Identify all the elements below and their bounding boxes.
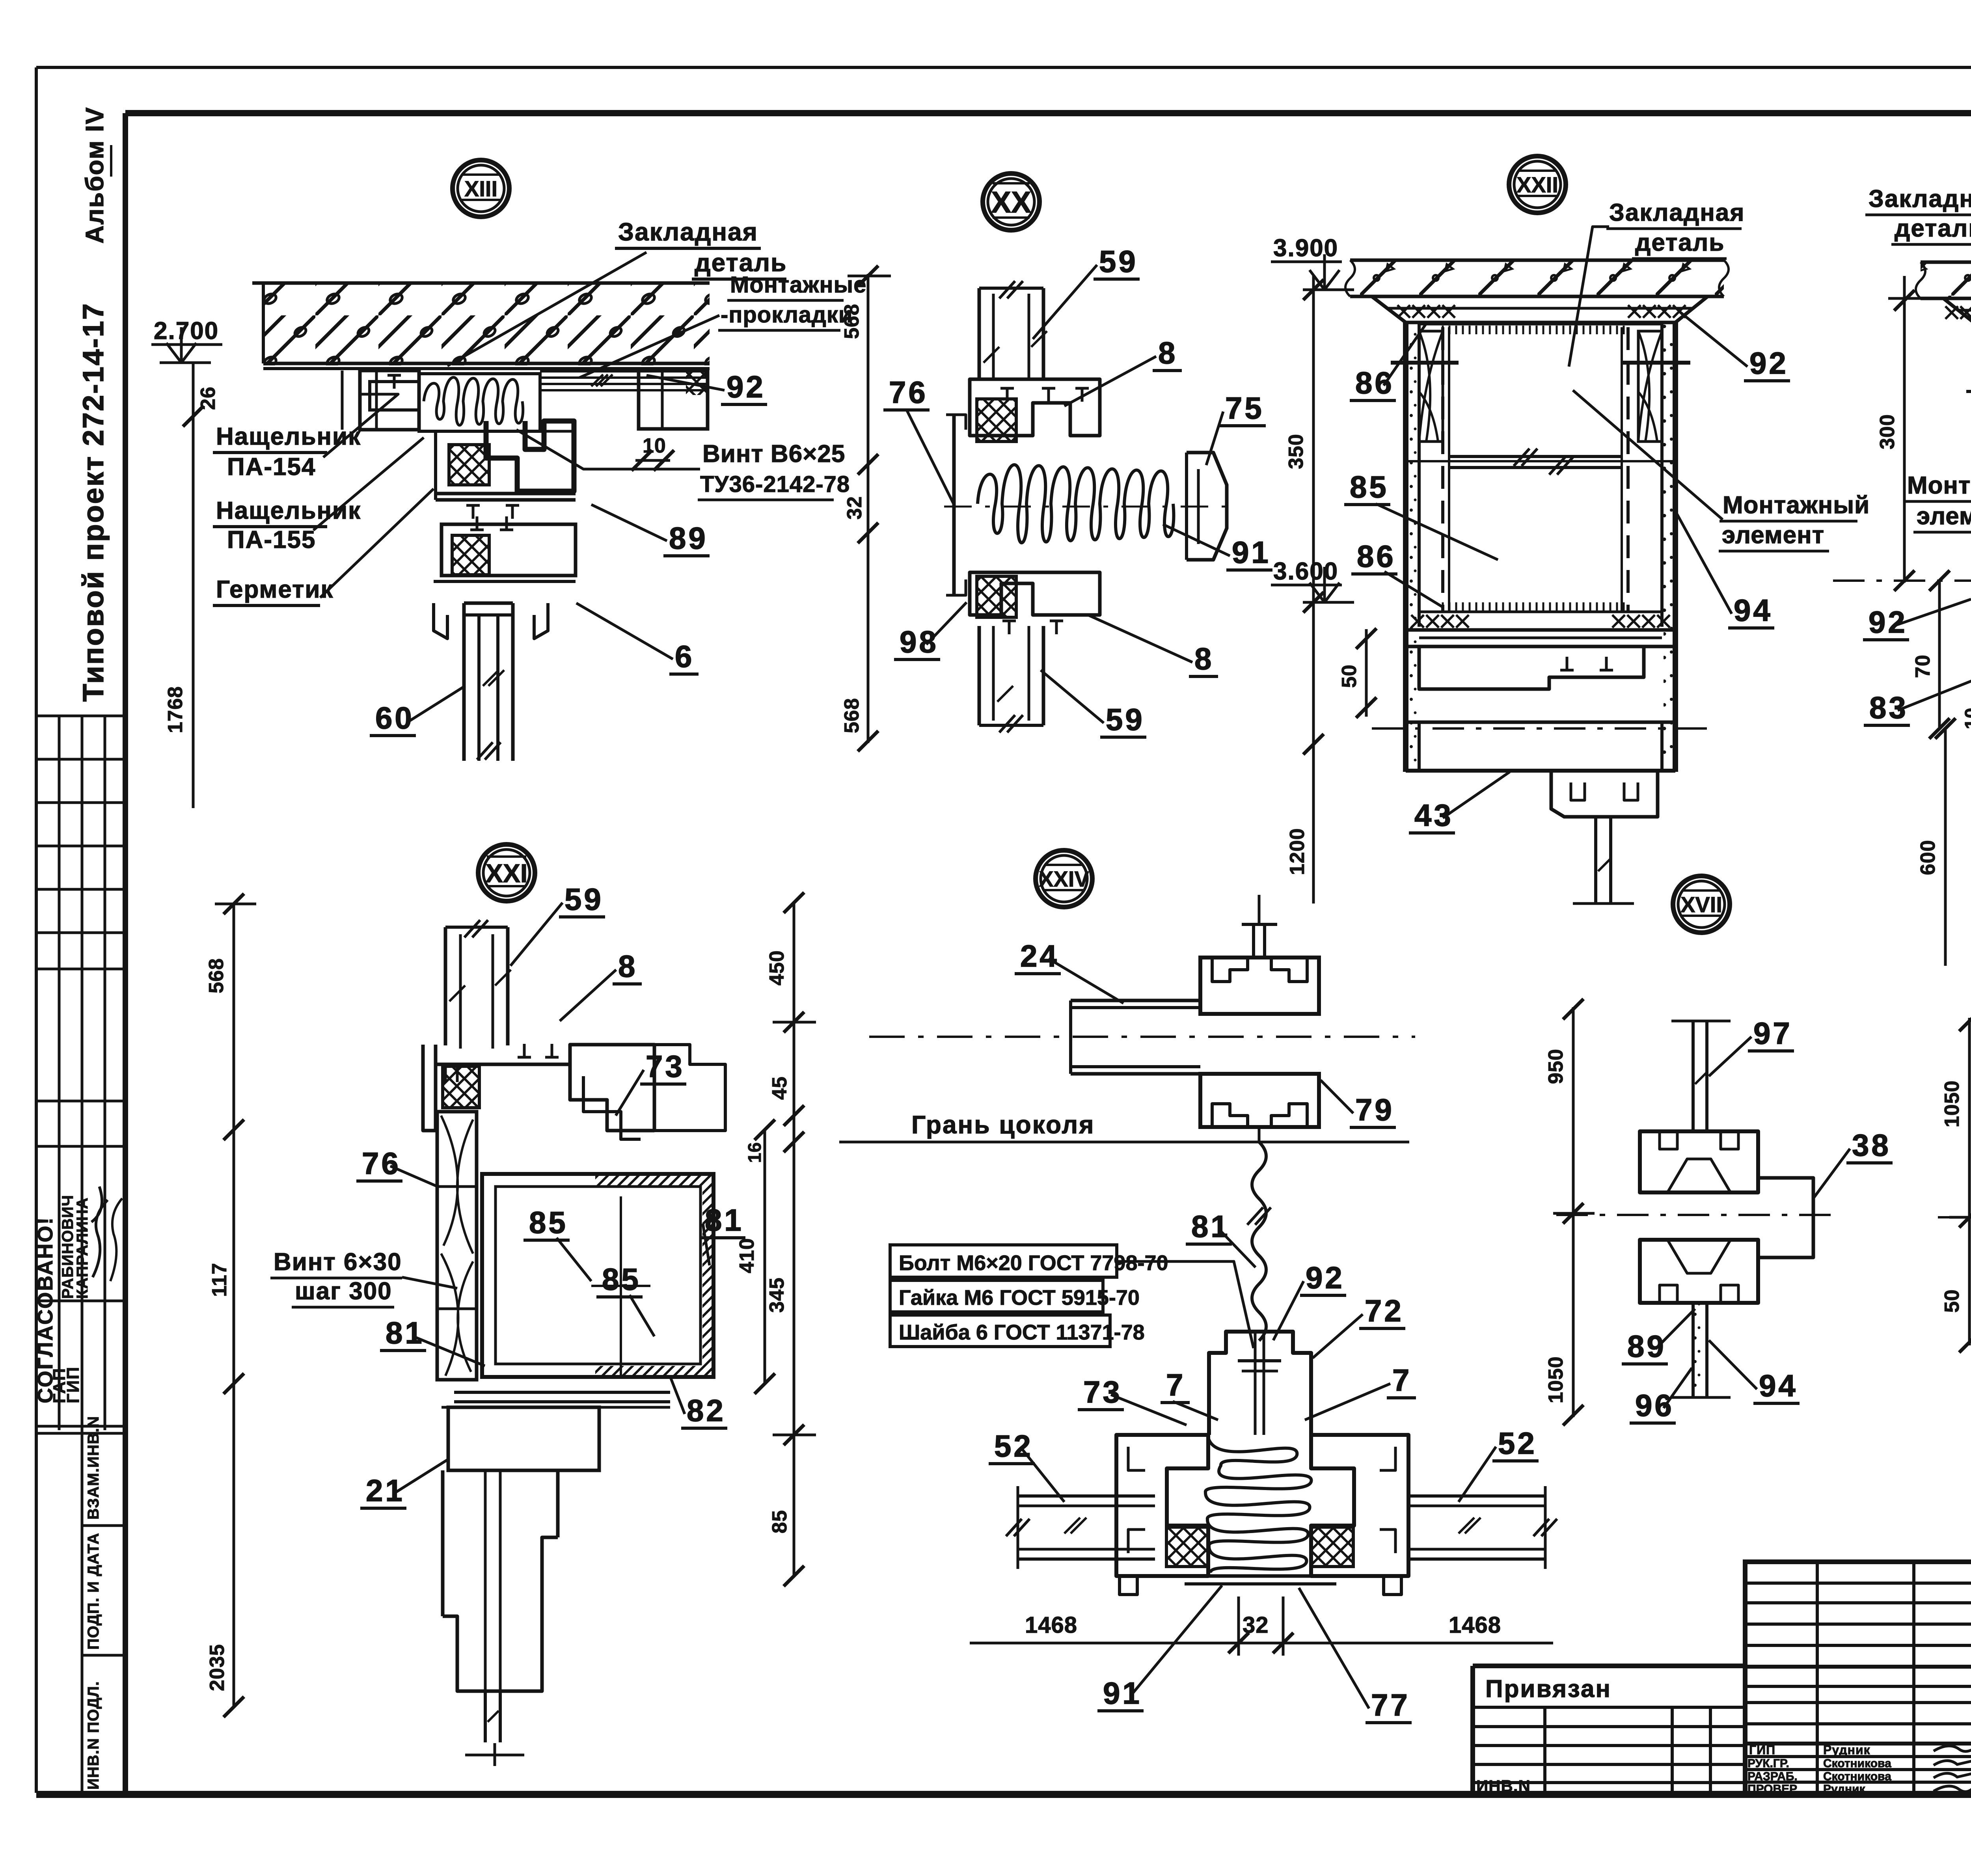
detail XXIV spring stack [1205, 1439, 1312, 1573]
svg-text:ГИП: ГИП [63, 1366, 83, 1403]
svg-text:Нащельник: Нащельник [216, 423, 361, 450]
detail XXIV spec box gayka [890, 1280, 1103, 1312]
svg-text:-прокладки: -прокладки [721, 302, 853, 328]
svg-text:Закладная: Закладная [1609, 199, 1745, 226]
detail XXII wood blocking right [1638, 331, 1662, 442]
svg-text:Альбом IV: Альбом IV [80, 106, 109, 244]
svg-text:92: 92 [1306, 1260, 1345, 1295]
detail XXIV spec box bolt [890, 1245, 1117, 1277]
svg-text:XIII: XIII [464, 176, 497, 201]
side stamp table horizontals [36, 715, 125, 717]
detail XXII slab with hatch [1350, 260, 1724, 296]
svg-text:Типовой проект 272-14-17: Типовой проект 272-14-17 [77, 302, 110, 702]
svg-text:ТУ36-2142-78: ТУ36-2142-78 [700, 471, 850, 497]
svg-text:шаг 300: шаг 300 [295, 1278, 392, 1305]
dim chain 50 [1365, 629, 1368, 717]
svg-text:8: 8 [618, 949, 637, 984]
detail XXIV bolt assembly box [1209, 1332, 1311, 1435]
svg-text:XVII: XVII [1680, 892, 1722, 917]
svg-text:77: 77 [1371, 1688, 1410, 1722]
svg-text:450: 450 [766, 950, 788, 986]
main frame bottom line [36, 1791, 1971, 1798]
svg-text:РАЗРАБ.: РАЗРАБ. [1747, 1770, 1798, 1783]
svg-text:1050: 1050 [1544, 1356, 1567, 1403]
detail XXI frame profiles [423, 1045, 436, 1131]
svg-text:568: 568 [205, 958, 228, 993]
svg-text:ПРОВЕР: ПРОВЕР [1747, 1783, 1797, 1796]
detail XXIV glass right [1408, 1494, 1545, 1498]
svg-text:60: 60 [375, 700, 414, 735]
svg-text:16: 16 [744, 1142, 765, 1163]
detail XVII centerline [1556, 1214, 1835, 1216]
svg-text:Рудник: Рудник [1823, 1743, 1870, 1757]
svg-text:45: 45 [768, 1076, 791, 1100]
detail XXI lower box [448, 1407, 599, 1470]
detail XXII box outer walls [1403, 322, 1408, 772]
side stamp signature squiggles [91, 1187, 108, 1277]
detail XXI sill plates [454, 1391, 670, 1394]
svg-text:345: 345 [766, 1277, 788, 1313]
svg-text:85: 85 [1350, 469, 1389, 504]
detail XVIII centerline [1938, 1216, 1971, 1218]
svg-text:950: 950 [1544, 1049, 1567, 1084]
svg-text:59: 59 [1099, 244, 1138, 279]
detail XXIV gasket x-hatch left [1166, 1527, 1208, 1567]
detail XVII top profile box [1640, 1131, 1758, 1192]
detail XXIII dim 600 [1944, 728, 1947, 966]
svg-text:XXI: XXI [486, 859, 527, 888]
detail XX centerline [944, 506, 1228, 508]
svg-text:70: 70 [1911, 654, 1934, 678]
detail XIII circle [453, 160, 509, 217]
svg-text:Винт 6×30: Винт 6×30 [274, 1248, 402, 1276]
detail XIII slab with hatch [263, 283, 710, 365]
detail XVII right extension [1758, 1178, 1813, 1257]
svg-text:98: 98 [900, 624, 939, 659]
detail XXIV right profile box [1311, 1435, 1408, 1576]
svg-text:38: 38 [1852, 1128, 1891, 1162]
detail XXIV spec leader [1117, 1261, 1254, 1348]
detail XX left skin line [952, 415, 956, 595]
svg-text:ПА-155: ПА-155 [227, 526, 316, 553]
detail XXII sill box [1419, 646, 1644, 689]
svg-text:300: 300 [1876, 414, 1899, 449]
svg-text:Рудник: Рудник [1823, 1783, 1866, 1796]
detail XXIV outer dim 410 [764, 1130, 766, 1384]
detail XXI tray box [482, 1174, 714, 1377]
detail XVII circle [1673, 876, 1730, 933]
detail XIII gasket x-hatch upper [449, 445, 489, 485]
detail XIII Z-profile channel [486, 421, 574, 491]
detail XXIV bottom plate [1190, 1574, 1330, 1578]
detail XXI top glass [444, 927, 447, 1045]
svg-text:350: 350 [1285, 434, 1308, 469]
privyazan table lines [1473, 1706, 1745, 1709]
svg-text:элемент: элемент [1722, 522, 1824, 549]
detail XXIV gasket x-hatch right [1312, 1527, 1353, 1567]
svg-text:8: 8 [1158, 335, 1177, 370]
svg-text:600: 600 [1917, 840, 1939, 875]
detail XXIII slab with hatch [1921, 262, 1971, 298]
detail XX bottom glass box [978, 626, 981, 725]
detail XXII top flange trapezoid [1372, 296, 1708, 322]
svg-text:91: 91 [1232, 535, 1271, 570]
svg-text:81: 81 [705, 1203, 744, 1237]
svg-text:117: 117 [208, 1263, 231, 1297]
svg-text:8: 8 [1194, 641, 1214, 676]
svg-text:деталь: деталь [1895, 215, 1971, 242]
svg-text:10: 10 [1962, 708, 1971, 729]
svg-text:Монтажный: Монтажный [1907, 472, 1971, 499]
svg-text:ГИП: ГИП [1749, 1743, 1775, 1757]
detail XXIII top flange [1943, 298, 1971, 324]
svg-text:Закладная: Закладная [618, 218, 758, 246]
svg-text:1768: 1768 [164, 686, 187, 733]
svg-text:ПОДП. И ДАТА: ПОДП. И ДАТА [85, 1533, 102, 1650]
detail XXIV top bolt [1252, 924, 1255, 958]
detail XVII top glass strip [1692, 1021, 1695, 1131]
detail XX insulation spring run [978, 465, 1174, 543]
detail XX lower profile cluster [970, 572, 1100, 615]
privyazan table border [1473, 1664, 1745, 1668]
svg-text:3.900: 3.900 [1273, 235, 1338, 262]
svg-text:Привязан: Привязан [1485, 1675, 1611, 1703]
detail XIII mullion side clips [434, 603, 447, 639]
svg-text:52: 52 [994, 1429, 1033, 1463]
detail XXIV gran tsokolya line [839, 1141, 1409, 1144]
detail XXII wood blocking left [1419, 331, 1443, 442]
svg-text:81: 81 [1191, 1209, 1230, 1244]
title block outer border [1745, 1562, 1971, 1794]
title block left column verticals [1816, 1562, 1819, 1794]
svg-text:96: 96 [1635, 1388, 1674, 1423]
detail XXII centerline [1372, 727, 1709, 730]
svg-text:79: 79 [1355, 1092, 1394, 1127]
svg-text:7: 7 [1392, 1363, 1412, 1397]
svg-text:1468: 1468 [1449, 1612, 1501, 1638]
detail XXII tie bolts [1391, 361, 1459, 365]
svg-text:2035: 2035 [206, 1644, 229, 1691]
svg-text:73: 73 [1083, 1375, 1122, 1409]
svg-text:Монтажные: Монтажные [730, 272, 866, 298]
svg-text:Монтажный: Монтажный [1723, 492, 1870, 519]
svg-text:52: 52 [1498, 1426, 1537, 1461]
svg-text:XX: XX [991, 186, 1031, 219]
svg-text:76: 76 [889, 375, 928, 410]
detail XXIII centerline left [1833, 579, 1971, 582]
detail XIII right bracket [639, 371, 708, 429]
svg-text:50: 50 [1338, 664, 1361, 688]
detail XVII mid band [1645, 1191, 1756, 1194]
svg-text:97: 97 [1753, 1016, 1792, 1051]
detail XIII mullion with glass [462, 603, 466, 761]
svg-text:1200: 1200 [1286, 828, 1309, 875]
svg-text:XXII: XXII [1516, 172, 1558, 197]
detail XX circle [983, 173, 1040, 230]
svg-text:86: 86 [1355, 365, 1394, 400]
svg-text:XXIV: XXIV [1039, 866, 1089, 891]
svg-text:элемент: элемент [1917, 503, 1971, 530]
svg-text:89: 89 [1627, 1329, 1666, 1364]
svg-text:72: 72 [1365, 1293, 1404, 1328]
detail XXIV top plates [1071, 999, 1200, 1002]
detail XXII flange gaskets x rows [1397, 305, 1410, 318]
detail XIII shim plates [540, 370, 708, 373]
sheet outer border top line [36, 66, 1971, 69]
detail XXIII dim 70 [1938, 581, 1941, 728]
svg-text:59: 59 [1106, 702, 1145, 737]
detail XVII left dim chain [1572, 1007, 1575, 1417]
title block signatures [1934, 1745, 1971, 1792]
detail XXIII left dim 300 [1903, 276, 1906, 583]
detail XXI insulation strip [437, 1112, 477, 1380]
svg-text:Нащельник: Нащельник [216, 497, 361, 524]
svg-text:ВЗАМ.ИНВ.N: ВЗАМ.ИНВ.N [85, 1416, 102, 1520]
detail XVII bottom profile box [1640, 1240, 1758, 1303]
svg-text:73: 73 [646, 1049, 685, 1084]
detail XXI lower mullion [441, 1470, 445, 1616]
detail XIII insulation springs [424, 377, 523, 425]
detail XXI gasket x-hatch [443, 1066, 479, 1108]
svg-text:РУК.ГР.: РУК.ГР. [1747, 1757, 1789, 1770]
main frame top line [125, 110, 1971, 116]
detail XXIV top member right block [1200, 958, 1319, 1014]
svg-text:75: 75 [1225, 391, 1264, 425]
svg-text:2.700: 2.700 [154, 317, 219, 345]
detail XXI circle [478, 844, 535, 901]
svg-text:85: 85 [768, 1510, 791, 1533]
detail XX top glass box [978, 288, 981, 379]
svg-text:26: 26 [197, 386, 220, 410]
detail XXIV bottom dim line [970, 1642, 1553, 1645]
svg-text:85: 85 [602, 1262, 641, 1297]
detail XX pointed cap [1187, 453, 1227, 560]
main frame left line [123, 113, 128, 1794]
svg-text:Шайба 6 ГОСТ 11371-78: Шайба 6 ГОСТ 11371-78 [899, 1321, 1145, 1344]
svg-text:3.600: 3.600 [1273, 558, 1338, 585]
detail XXIV bottom clips [1120, 1576, 1137, 1595]
svg-text:568: 568 [840, 304, 863, 339]
svg-text:81: 81 [386, 1315, 425, 1350]
svg-text:Болт М6×20 ГОСТ 7798-70: Болт М6×20 ГОСТ 7798-70 [899, 1251, 1168, 1275]
svg-text:92: 92 [727, 369, 766, 404]
svg-text:Герметик: Герметик [216, 576, 334, 603]
svg-text:Закладная: Закладная [1869, 185, 1971, 212]
sheet outer border left line [35, 67, 38, 1793]
svg-text:92: 92 [1749, 346, 1788, 380]
svg-text:Грань цоколя: Грань цоколя [911, 1110, 1095, 1139]
detail XXII mid rail [1449, 455, 1622, 458]
detail XVIII left dim chain [1968, 1018, 1971, 1345]
svg-text:24: 24 [1020, 939, 1059, 973]
detail XXIV spec box shayba [890, 1315, 1110, 1347]
detail XIII level mark 2.700 [160, 361, 211, 364]
detail XIII mid member [436, 492, 576, 496]
dim chain 3.600 level mark [1303, 601, 1354, 604]
svg-text:КАПРАЛИНА: КАПРАЛИНА [74, 1197, 91, 1299]
svg-text:1050: 1050 [1941, 1080, 1964, 1127]
svg-text:Гайка М6 ГОСТ 5915-70: Гайка М6 ГОСТ 5915-70 [899, 1286, 1140, 1310]
svg-text:7: 7 [1166, 1367, 1185, 1402]
detail XIII left bracket profile [360, 371, 419, 430]
detail XXII top comb row [1419, 323, 1662, 326]
detail XX upper profile cluster [970, 379, 1100, 436]
svg-text:410: 410 [736, 1238, 758, 1273]
svg-text:91: 91 [1103, 1676, 1142, 1710]
detail XX upper gasket x-hatch [977, 399, 1016, 442]
svg-text:568: 568 [840, 698, 863, 733]
detail XXI mullion glass below [484, 1691, 487, 1742]
detail XXII bottom box [1406, 689, 1675, 722]
svg-text:89: 89 [669, 521, 708, 555]
svg-text:82: 82 [687, 1393, 726, 1428]
detail XXIV circle [1036, 850, 1092, 907]
detail XXIV centerline top [869, 1036, 1415, 1038]
svg-text:86: 86 [1357, 539, 1396, 574]
svg-text:Скотникова: Скотникова [1823, 1770, 1891, 1783]
svg-text:94: 94 [1759, 1368, 1798, 1403]
svg-text:94: 94 [1734, 593, 1773, 628]
detail XXIV bottom member right block [1200, 1074, 1319, 1127]
svg-text:59: 59 [564, 882, 604, 917]
detail XXII bottom bracket [1551, 771, 1658, 817]
detail XXI left dim chain [233, 904, 235, 1707]
svg-text:85: 85 [529, 1205, 568, 1240]
detail XXII bottom gasket x rows [1411, 615, 1424, 628]
detail XIII left dim line [192, 363, 195, 808]
svg-text:ИНВ.N ПОДЛ.: ИНВ.N ПОДЛ. [85, 1681, 102, 1790]
svg-text:10: 10 [643, 434, 666, 457]
detail XXIV left dim chain [793, 903, 795, 1576]
detail XXIV glass left [1018, 1494, 1155, 1498]
title block left column horizontals [1745, 1582, 1971, 1585]
dim chain 3.900 level mark [1303, 289, 1354, 291]
detail XIII lower frame [442, 524, 576, 576]
detail XXII circle [1509, 156, 1566, 213]
title block row lines full width [1745, 1665, 1971, 1669]
detail XIII dim 10 [635, 459, 670, 462]
svg-text:32: 32 [1243, 1612, 1269, 1638]
svg-text:1468: 1468 [1025, 1612, 1077, 1638]
detail XXII bottom comb row [1443, 602, 1624, 611]
svg-text:ИНВ.N: ИНВ.N [1476, 1777, 1531, 1795]
detail XVII bottom glass strip stippled [1692, 1303, 1695, 1397]
svg-text:50: 50 [1941, 1289, 1964, 1313]
detail XXII inner dashed frame [1441, 327, 1444, 612]
svg-text:Винт В6×25: Винт В6×25 [702, 440, 845, 468]
svg-text:6: 6 [675, 639, 694, 674]
detail XXIV wavy junction line [1258, 1127, 1261, 1142]
dim chain main line [1312, 276, 1315, 904]
side stamp table verticals [58, 716, 61, 1430]
detail XIII right dim chain [867, 274, 870, 743]
detail XXII bottom outer line [1406, 769, 1675, 773]
svg-text:32: 32 [843, 496, 866, 520]
detail XXII sill plates [1406, 628, 1675, 632]
svg-text:ПА-154: ПА-154 [227, 453, 316, 481]
svg-text:Скотникова: Скотникова [1823, 1757, 1891, 1770]
detail XX lower gasket x-hatch [977, 576, 1016, 617]
detail XXII glass post below [1594, 817, 1597, 903]
detail XXIV left profile box [1116, 1435, 1208, 1576]
svg-text:деталь: деталь [1635, 229, 1725, 256]
svg-text:76: 76 [362, 1146, 401, 1181]
